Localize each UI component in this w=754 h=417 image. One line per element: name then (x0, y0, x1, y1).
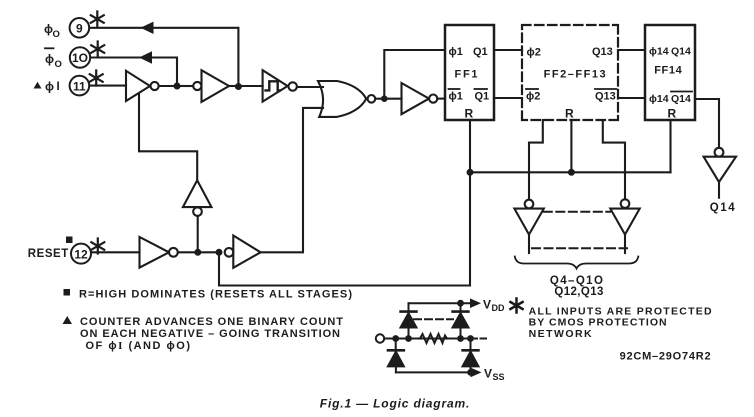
svg-text:Q12,Q13: Q12,Q13 (554, 286, 603, 298)
wire U11 to Q14 label (718, 182, 720, 198)
node dots on input line (392, 335, 474, 342)
wire node D to node E (201, 251, 216, 253)
wire protection input line (384, 338, 486, 340)
wire Q13 to FF14 (618, 49, 645, 51)
svg-text:COUNTER ADVANCES ONE BINARY CO: COUNTER ADVANCES ONE BINARY COUNT (80, 316, 343, 328)
pin 12 terminal RESET (28, 237, 91, 264)
asterisk at pin 10 (91, 42, 104, 57)
inverter U9 (output buffer, downward) (514, 200, 543, 235)
svg-text:ϕ1: ϕ1 (449, 91, 463, 103)
svg-text:FF1: FF1 (455, 69, 478, 81)
node A junction (174, 83, 181, 90)
protection network input terminal (376, 334, 384, 342)
wire FF14 Q14bar to inverter U11 (695, 99, 719, 148)
wire Q13bar to FF14 (618, 97, 645, 99)
svg-text:ϕ14: ϕ14 (649, 46, 669, 58)
svg-text:ϕ2: ϕ2 (527, 47, 541, 59)
NOR gate U4 (318, 81, 375, 117)
diode D2 (to VDD, right) (453, 303, 469, 338)
wire pin11 to inverter U1 (90, 85, 127, 87)
flip-flop FF1 (445, 25, 494, 121)
dashed link between D1 and D2 (414, 318, 453, 320)
svg-text:V: V (483, 297, 491, 311)
svg-text:R: R (565, 107, 574, 121)
wire U1 to node A (159, 85, 174, 87)
svg-text:Q1: Q1 (475, 91, 490, 103)
svg-text:FF14: FF14 (654, 65, 682, 77)
arrow to VSS (471, 368, 482, 378)
svg-text:DD: DD (492, 303, 505, 313)
svg-text:ON EACH NEGATIVE – GOING TRANS: ON EACH NEGATIVE – GOING TRANSITION (80, 328, 340, 340)
svg-text:Q14: Q14 (710, 202, 736, 214)
svg-text:V: V (484, 366, 492, 380)
brace under output buffers (515, 257, 639, 269)
inverter U11 (Q14 output buffer) (704, 148, 736, 182)
VDD rail (409, 302, 471, 304)
wire U10 apex down (624, 235, 626, 254)
wire U5 to FF1 phi1-bar input (437, 98, 445, 100)
wire tap FF2 outputs to U10 (603, 120, 625, 200)
svg-text:ϕ: ϕ (45, 52, 54, 66)
inverter U2 (202, 70, 230, 102)
legend: R=HIGH DOMINATES (64, 289, 353, 301)
diode D4 (from VSS, right) (463, 339, 479, 373)
inverter U5 (402, 83, 438, 114)
asterisk note (protection) (510, 299, 522, 313)
svg-text:R: R (668, 107, 677, 121)
wire FF14 R drop (669, 120, 671, 172)
wire reset net to R line (219, 120, 470, 286)
svg-text:11: 11 (73, 79, 86, 93)
dashed repeat line upper (544, 211, 610, 213)
wire U6 to reset node D (197, 216, 199, 249)
wire pin10 to chain node A (91, 58, 178, 87)
pin 9 terminal phi-O (44, 18, 89, 40)
svg-text:OF ϕI (AND ϕO): OF ϕI (AND ϕO) (86, 340, 191, 352)
flip-flop FF14 (645, 25, 695, 121)
VSS rail (396, 371, 471, 373)
svg-text:O: O (55, 59, 62, 70)
diode D3 (from VSS, left) (388, 339, 404, 373)
node D junction (194, 249, 201, 256)
dashed repeat line lower (532, 247, 627, 249)
svg-text:ϕ2: ϕ2 (526, 91, 540, 103)
wire FF1 Q1 to FF2 phi2 (494, 49, 522, 51)
wire node C up to FF1 phi1 input (384, 50, 445, 99)
wire FF2 R drop (570, 120, 572, 169)
asterisk at pin 12 (91, 239, 104, 254)
svg-text:R=HIGH DOMINATES (RESETS ALL S: R=HIGH DOMINATES (RESETS ALL STAGES) (79, 289, 352, 301)
svg-text:SS: SS (493, 372, 505, 382)
wire U3 to NOR U4 (297, 86, 323, 88)
wire U2 to node B (229, 85, 235, 87)
arrow to VDD (470, 298, 481, 308)
inverter U1 (126, 71, 159, 101)
wire FF1 Q1bar to FF2 phi2bar (494, 97, 522, 99)
diode D1 (to VDD, left) (401, 303, 417, 338)
svg-text:R: R (465, 107, 474, 121)
svg-text:BY CMOS PROTECTION: BY CMOS PROTECTION (529, 317, 667, 329)
svg-text:12: 12 (74, 247, 88, 261)
wire node A to U2 (180, 85, 193, 87)
svg-text:9: 9 (76, 22, 83, 36)
svg-text:NETWORK: NETWORK (529, 328, 592, 340)
pin 11 terminal phi-I input (34, 76, 90, 96)
svg-text:Q13: Q13 (592, 46, 613, 58)
wire pin9 to chain node B (90, 28, 239, 87)
svg-text:O: O (53, 29, 60, 40)
buffer U8 input bubble (225, 248, 234, 257)
inverter U6 (upward) (183, 180, 212, 216)
wire U4 output to node C (375, 98, 401, 100)
pin 10 terminal phi-O-bar (45, 47, 90, 70)
svg-text:Q14: Q14 (671, 93, 691, 105)
svg-text:ϕ1: ϕ1 (449, 46, 463, 58)
resistor R1 (420, 334, 447, 343)
wire R bus (470, 171, 671, 173)
asterisk at pin 11 (90, 71, 103, 86)
node B junction (235, 83, 242, 90)
svg-text:Q14: Q14 (671, 46, 691, 58)
node R junction FF2 (568, 169, 575, 176)
svg-text:Fig.1 — Logic diagram.: Fig.1 — Logic diagram. (320, 397, 470, 411)
legend: counter advances note (63, 316, 344, 352)
node dot on VDD rail (457, 300, 464, 307)
node C junction (381, 95, 388, 102)
node E junction (216, 249, 223, 256)
inverter U2 input bubble (193, 82, 201, 90)
wire U8 to NOR U4 lower input (261, 108, 323, 252)
svg-text:1O: 1O (72, 51, 88, 65)
node R junction on FF1 reset drop (467, 169, 474, 176)
svg-text:ϕ14: ϕ14 (649, 93, 669, 105)
svg-text:FF2–FF13: FF2–FF13 (544, 69, 606, 81)
wire U9 apex down (528, 235, 530, 254)
asterisk at pin 9 (91, 12, 104, 27)
buffer U8 (233, 236, 260, 268)
node dot on VSS rail (467, 369, 474, 376)
svg-text:Q13: Q13 (595, 91, 616, 103)
note text: all inputs protected (529, 306, 712, 341)
inverter U7 (140, 237, 178, 268)
svg-text:I: I (57, 81, 60, 93)
svg-text:Q1: Q1 (473, 46, 488, 58)
inverter U10 (output buffer, downward) (610, 199, 639, 234)
wire pin12 to inverter U7 (92, 251, 140, 253)
flip-flop block FF2-FF13 (dashed) (522, 25, 618, 121)
wire node B to U3 (242, 85, 263, 87)
wire feedback from U1 to U6 (139, 94, 197, 180)
svg-text:ALL INPUTS ARE PROTECTED: ALL INPUTS ARE PROTECTED (529, 306, 712, 318)
arrowhead on pin 10 wire (139, 51, 152, 63)
wire tap FF2 outputs to U9 (529, 120, 543, 200)
svg-text:92CM–29O74R2: 92CM–29O74R2 (620, 351, 711, 363)
wire U7 to node D (178, 251, 195, 253)
arrowhead on pin 9 wire (141, 22, 154, 34)
schmitt inverter U3 (263, 70, 297, 101)
svg-text:ϕ: ϕ (45, 80, 54, 94)
svg-text:RESET: RESET (28, 248, 69, 260)
